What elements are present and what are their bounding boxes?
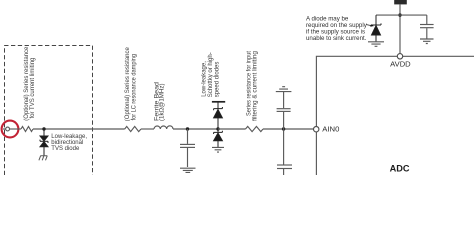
supply horizontal wire — [376, 14, 427, 16]
ground for C4 — [420, 39, 434, 44]
resistor R1 (TVS current limiting) — [21, 127, 33, 132]
svg-text:filtering & current limiting: filtering & current limiting — [253, 51, 259, 121]
dashed protection-network boundary box — [5, 46, 93, 176]
wire clamp node to R3 — [218, 128, 246, 130]
ADC box — [316, 56, 474, 175]
svg-text:(Optional) Series resistance: (Optional) Series resistance — [24, 46, 30, 121]
svg-text:unable to sink current.: unable to sink current. — [306, 35, 367, 42]
ground for C1 — [180, 168, 196, 172]
ground for D4 — [368, 42, 384, 47]
capacitor C3 drawn downward clipped — [277, 129, 292, 175]
arrow from note to supply diode D4 — [366, 24, 374, 26]
capacitor C1 — [180, 129, 195, 167]
capacitor C2 drawn upward — [277, 92, 291, 129]
ground for clamp diodes — [212, 147, 224, 152]
supply diode D4 — [371, 15, 381, 41]
wire R1 to TVS node — [33, 128, 125, 130]
svg-text:Schottky or high-: Schottky or high- — [208, 52, 214, 97]
svg-text:for LC resonance damping: for LC resonance damping — [132, 54, 138, 121]
input terminal stub — [3, 128, 6, 130]
label Low-leakage, Schottky or high-speed diodes — [201, 52, 220, 97]
red annotation circle highlighting input terminal — [2, 121, 19, 138]
junction node C1 — [186, 127, 189, 130]
svg-text:speed diodes: speed diodes — [214, 62, 220, 98]
decoupling capacitor C4 — [420, 15, 434, 39]
TVS diode D1 bidirectional — [40, 129, 48, 156]
label Ferrite Bead (1kOhm@1MHz) — [154, 82, 165, 121]
label (Optional) Series resistance for TVS current limiting — [24, 46, 36, 121]
junction node TVS — [42, 127, 45, 130]
svg-text:Low-leakage,: Low-leakage, — [201, 61, 207, 97]
ferrite bead FB1 — [154, 126, 173, 129]
junction node C2/C3 — [282, 127, 285, 130]
inverted ground for C2 — [276, 87, 292, 92]
resistor R2 (LC resonance damping) — [125, 126, 141, 131]
wire R3 to C2/C3 node — [263, 128, 314, 130]
wire FB1 to C1 node — [173, 128, 218, 130]
pin AVDD — [397, 54, 402, 59]
label Series resistance for input filtering and current limiting — [246, 51, 258, 121]
svg-text:AVDD: AVDD — [390, 59, 411, 68]
label (Optional) Series resistance for LC resonance damping — [125, 47, 138, 122]
Schottky diode D3 to ground — [214, 129, 223, 147]
svg-text:ADC: ADC — [390, 164, 410, 174]
junction node supply — [398, 13, 401, 16]
svg-text:AIN0: AIN0 — [322, 125, 339, 134]
wire input to R1 — [10, 128, 22, 130]
junction node clamp diodes — [216, 127, 219, 130]
wire R2 to FB1 — [141, 128, 154, 130]
svg-text:Series resistance for input: Series resistance for input — [246, 51, 252, 116]
pin AIN0 — [314, 127, 319, 132]
resistor R3 (input filtering) — [246, 126, 264, 131]
AVDD rail T-bar — [212, 101, 225, 103]
svg-text:for TVS current limiting: for TVS current limiting — [30, 58, 36, 119]
input terminal J1 — [6, 127, 10, 131]
label Low-leakage, bidirectional TVS diode — [51, 134, 87, 152]
supply entry bar — [394, 0, 407, 4]
svg-text:(1kΩ@1MHz): (1kΩ@1MHz) — [160, 83, 166, 121]
svg-text:TVS diode: TVS diode — [51, 146, 80, 152]
signal ground for TVS — [39, 156, 48, 161]
note text about supply diode — [306, 15, 368, 42]
supply vertical wire — [399, 4, 401, 53]
svg-text:(Optional) Series resistance: (Optional) Series resistance — [125, 47, 131, 122]
Schottky diode D2 to supply rail — [214, 102, 223, 129]
